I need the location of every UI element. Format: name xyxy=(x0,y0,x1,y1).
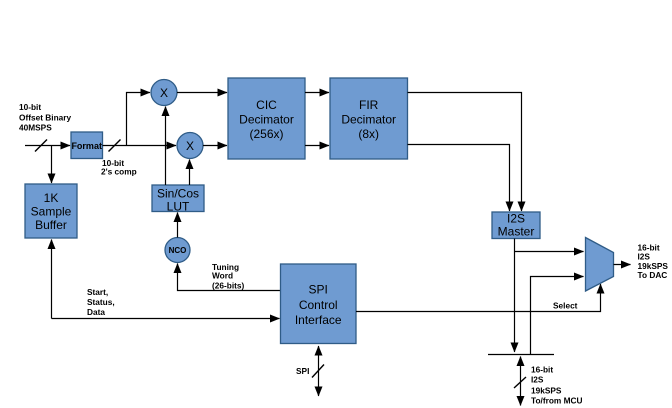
svg-text:FIR: FIR xyxy=(359,98,379,112)
svg-text:LUT: LUT xyxy=(167,200,190,214)
svg-text:Sin/Cos: Sin/Cos xyxy=(157,187,199,201)
wire: bidirectional SPI port below SPI Control Interface xyxy=(318,346,320,396)
svg-text:I2S: I2S xyxy=(638,252,651,262)
svg-text:Word: Word xyxy=(212,271,233,281)
svg-text:I2S: I2S xyxy=(531,375,544,385)
svg-text:Start,: Start, xyxy=(87,287,108,297)
bus slash on MCU I2S port xyxy=(514,377,526,388)
svg-text:SPI: SPI xyxy=(296,366,309,376)
svg-text:Sample: Sample xyxy=(31,205,72,219)
wire: Start/Status/Data to SPI Control Interface xyxy=(52,318,280,320)
svg-text:To/from MCU: To/from MCU xyxy=(531,396,582,406)
svg-text:(26-bits): (26-bits) xyxy=(212,281,245,291)
multiplier X2 xyxy=(177,133,203,159)
svg-text:Buffer: Buffer xyxy=(35,218,67,232)
svg-text:To DAC: To DAC xyxy=(638,270,668,280)
svg-text:X: X xyxy=(160,86,168,100)
wire: X2 output to CIC Decimator xyxy=(203,145,227,147)
label: Select xyxy=(553,301,578,311)
block CIC Decimator (256x) xyxy=(228,78,305,159)
block SPI Control Interface xyxy=(281,264,357,344)
wire: FIR lower output to I2S Master xyxy=(408,145,510,212)
wire: I2S Master down to MCU bus xyxy=(514,239,516,353)
svg-text:19kSPS: 19kSPS xyxy=(531,386,562,396)
svg-text:Interface: Interface xyxy=(295,313,342,327)
svg-text:1K: 1K xyxy=(44,191,59,205)
svg-text:SPI: SPI xyxy=(309,283,328,297)
svg-text:40MSPS: 40MSPS xyxy=(19,123,52,133)
svg-text:10-bit: 10-bit xyxy=(19,102,41,112)
svg-text:Select: Select xyxy=(553,301,578,311)
svg-text:X: X xyxy=(186,139,194,153)
label: 16-bit I2S 19kSPS To/from MCU xyxy=(531,365,582,406)
wire: MCU bus bar xyxy=(488,354,554,356)
svg-text:Offset Binary: Offset Binary xyxy=(19,113,71,123)
NCO oscillator xyxy=(165,238,190,263)
svg-text:I2S: I2S xyxy=(507,212,525,226)
bus slash on SPI port xyxy=(312,365,324,378)
wire: Format output to multiplier X2 xyxy=(103,145,177,147)
block 1K Sample Buffer xyxy=(25,184,77,238)
wire: Sin/Cos LUT to multiplier X1 xyxy=(165,107,167,186)
label: 16-bit I2S 19kSPS To DAC xyxy=(638,243,669,281)
svg-text:16-bit: 16-bit xyxy=(531,365,553,375)
svg-text:Decimator: Decimator xyxy=(341,113,396,127)
wire: CIC to FIR upper xyxy=(305,92,329,94)
bus slash on input wire xyxy=(35,140,47,152)
block I2S Master xyxy=(492,212,540,239)
wire: NCO to Sin/Cos LUT xyxy=(177,213,179,238)
svg-text:Data: Data xyxy=(87,307,105,317)
block Sin/Cos LUT xyxy=(152,185,204,214)
wire: branch up to multiplier X1 xyxy=(127,93,151,146)
wire: Start/Status/Data up into Sample Buffer xyxy=(51,240,53,319)
block FIR Decimator (8x) xyxy=(330,78,408,159)
wire: bidirectional I2S to/from MCU xyxy=(520,357,522,406)
label: Start, Status, Data xyxy=(87,287,115,317)
wire: branch to mux input A xyxy=(515,251,584,253)
wire: analog input bus into Format xyxy=(25,145,70,147)
wire: Select from SPI to mux xyxy=(356,284,601,312)
label: Tuning Word (26-bits) xyxy=(212,262,245,291)
label: SPI xyxy=(296,366,309,376)
wire: CIC to FIR lower xyxy=(305,145,329,147)
wire: Sin/Cos LUT to multiplier X2 xyxy=(189,160,191,186)
label: 10-bit Offset Binary 40MSPS xyxy=(19,102,71,133)
wire: tuning word from SPI to NCO xyxy=(178,264,281,291)
svg-text:Status,: Status, xyxy=(87,297,115,307)
mux selector xyxy=(586,238,614,292)
svg-text:(8x): (8x) xyxy=(358,127,379,141)
multiplier X1 xyxy=(151,80,177,106)
svg-text:Decimator: Decimator xyxy=(239,113,294,127)
svg-text:Master: Master xyxy=(498,225,535,239)
wire: branch down to 1K Sample Buffer xyxy=(51,146,53,184)
svg-text:(256x): (256x) xyxy=(249,127,283,141)
svg-text:Format: Format xyxy=(71,141,102,151)
block Format xyxy=(71,132,103,159)
wire: MCU bus up to mux input B xyxy=(531,277,584,355)
svg-text:NCO: NCO xyxy=(169,246,187,255)
wire: FIR upper output to I2S Master xyxy=(408,93,522,212)
label: 10-bit 2's comp xyxy=(101,158,137,177)
wire: mux output to DAC xyxy=(614,264,631,266)
bus slash on Format output xyxy=(109,140,121,152)
svg-text:2's comp: 2's comp xyxy=(101,167,137,177)
svg-text:CIC: CIC xyxy=(256,98,277,112)
svg-text:Control: Control xyxy=(299,298,338,312)
wire: X1 output to CIC Decimator xyxy=(177,92,227,94)
